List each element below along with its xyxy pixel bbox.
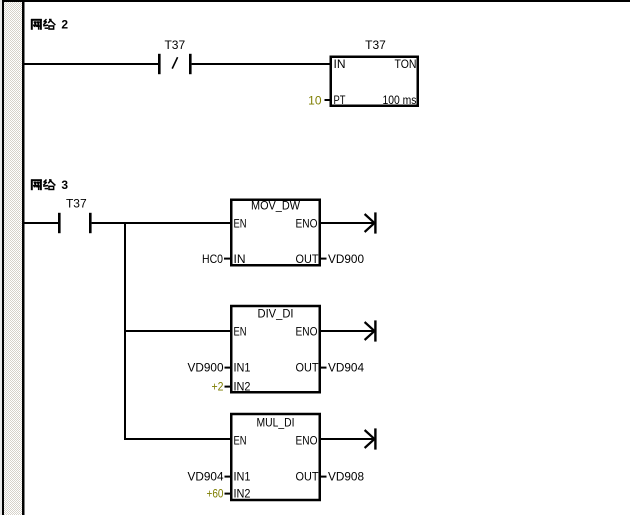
rung end arrow 2 xyxy=(365,320,377,341)
branch wire to DIV_DI xyxy=(124,330,230,332)
svg-text:T37: T37 xyxy=(164,38,185,52)
svg-text:TON: TON xyxy=(395,57,417,71)
svg-text:VD900: VD900 xyxy=(188,360,224,374)
IN2 stub wire xyxy=(225,386,231,388)
left power rail xyxy=(22,2,25,515)
contact T37 (NC) N2 xyxy=(158,54,192,74)
OUT stub wire xyxy=(321,476,327,478)
timer box T37 TON xyxy=(331,57,418,106)
svg-text:ENO: ENO xyxy=(296,216,318,230)
IN2 stub wire xyxy=(225,493,231,495)
svg-text:3: 3 xyxy=(61,178,68,192)
svg-text:VD904: VD904 xyxy=(188,469,224,483)
rung end arrow 3 xyxy=(365,428,377,449)
svg-text:2: 2 xyxy=(61,18,68,32)
wire contact to TON box xyxy=(192,63,330,65)
svg-text:IN2: IN2 xyxy=(234,486,251,500)
svg-text:EN: EN xyxy=(234,324,247,338)
svg-text:OUT: OUT xyxy=(296,252,320,266)
box MUL_DI xyxy=(231,414,320,500)
svg-text:IN: IN xyxy=(334,57,346,71)
branch wire to MUL_DI xyxy=(124,438,230,440)
ENO wire DIV_DI xyxy=(321,330,374,332)
svg-text:MOV_DW: MOV_DW xyxy=(251,198,301,212)
PT stub wire xyxy=(325,99,331,101)
svg-text:+2: +2 xyxy=(212,379,224,393)
rung end arrow 1 xyxy=(365,212,377,233)
branch vertical wire xyxy=(124,222,126,440)
left margin border line xyxy=(2,0,4,515)
top window border xyxy=(0,0,630,2)
svg-text:MUL_DI: MUL_DI xyxy=(257,415,295,429)
svg-text:IN: IN xyxy=(234,252,246,266)
svg-text:VD908: VD908 xyxy=(328,469,364,483)
box MOV_DW xyxy=(231,200,320,266)
svg-text:10: 10 xyxy=(308,94,322,108)
wire rail to contact N3 xyxy=(25,222,59,224)
network 3 label 络 xyxy=(43,180,55,190)
IN1 stub wire xyxy=(225,367,231,369)
network 2 label 络 xyxy=(43,19,55,29)
network 3 label 网 xyxy=(31,179,42,190)
svg-text:DIV_DI: DIV_DI xyxy=(258,306,294,320)
OUT stub wire xyxy=(321,367,327,369)
svg-text:HC0: HC0 xyxy=(202,252,223,266)
svg-text:EN: EN xyxy=(234,216,247,230)
OUT stub wire xyxy=(321,258,327,260)
svg-text:OUT: OUT xyxy=(296,469,320,483)
svg-text:EN: EN xyxy=(234,433,247,447)
wire contact to MOV_DW xyxy=(92,222,230,224)
svg-text:T37: T37 xyxy=(365,38,386,52)
ENO wire MUL_DI xyxy=(321,438,374,440)
svg-text:+60: +60 xyxy=(207,486,224,500)
svg-text:100 ms: 100 ms xyxy=(383,93,417,107)
IN1 stub wire xyxy=(225,476,231,478)
svg-text:IN1: IN1 xyxy=(234,469,251,483)
IN stub wire xyxy=(224,258,230,260)
contact T37 (NO) N3 xyxy=(58,213,92,233)
svg-text:PT: PT xyxy=(334,93,347,107)
svg-text:IN1: IN1 xyxy=(234,360,251,374)
svg-text:VD900: VD900 xyxy=(328,252,364,266)
svg-text:ENO: ENO xyxy=(296,433,318,447)
svg-text:VD904: VD904 xyxy=(328,360,364,374)
wire rail to contact N2 xyxy=(25,63,159,65)
left window edge xyxy=(0,0,2,515)
box DIV_DI xyxy=(231,306,320,392)
network 2 label 网 xyxy=(31,19,42,30)
svg-text:IN2: IN2 xyxy=(234,379,251,393)
svg-text:T37: T37 xyxy=(66,197,87,211)
ENO wire MOV_DW xyxy=(321,222,374,224)
svg-text:ENO: ENO xyxy=(296,324,318,338)
svg-text:OUT: OUT xyxy=(296,360,320,374)
margin gutter (dithered) xyxy=(4,2,22,515)
